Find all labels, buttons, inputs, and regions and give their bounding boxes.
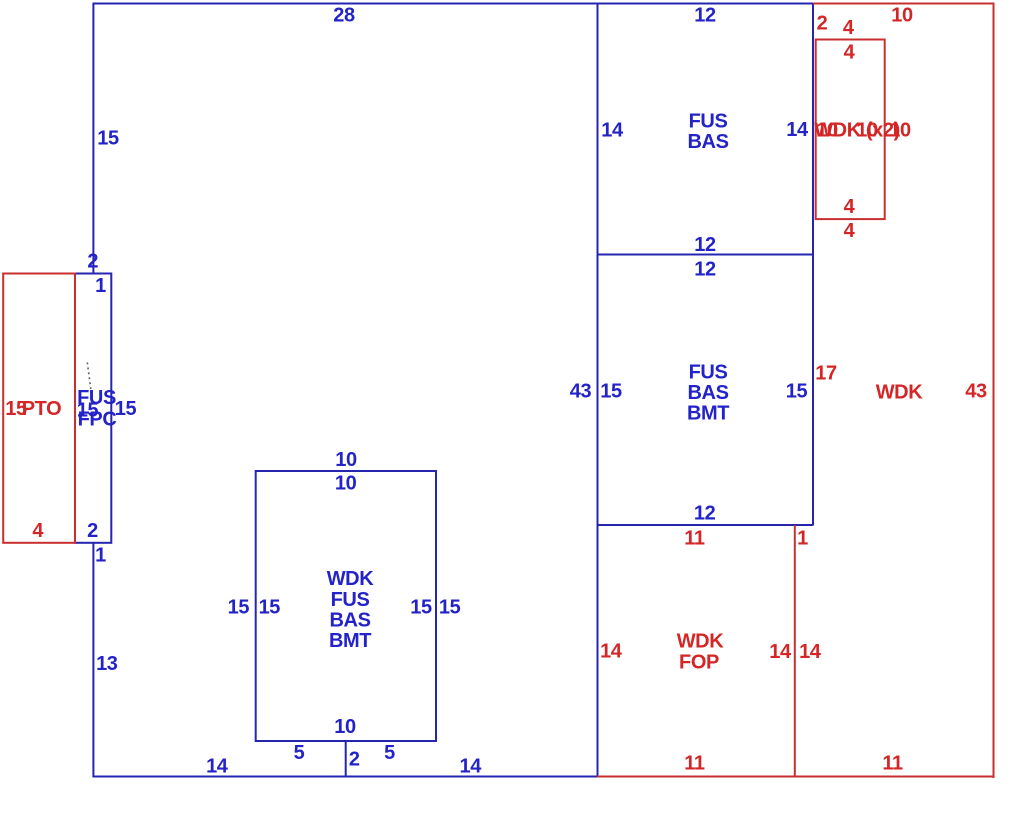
node: WDK FUS BAS BMT rectangle bbox=[256, 471, 436, 741]
svg-text:14: 14 bbox=[786, 119, 809, 141]
svg-text:BMT: BMT bbox=[329, 630, 371, 652]
node: FUS FPC rectangle bbox=[75, 274, 111, 543]
svg-text:10: 10 bbox=[856, 119, 878, 141]
svg-text:15: 15 bbox=[410, 596, 432, 618]
svg-text:10: 10 bbox=[335, 449, 357, 471]
node: PTO rectangle bbox=[3, 274, 75, 543]
svg-text:15: 15 bbox=[439, 596, 461, 618]
svg-text:15: 15 bbox=[97, 127, 119, 149]
svg-text:1: 1 bbox=[797, 527, 808, 549]
svg-text:13: 13 bbox=[96, 653, 118, 675]
svg-text:PTO: PTO bbox=[22, 398, 62, 420]
svg-text:FUS: FUS bbox=[331, 589, 370, 611]
svg-text:12: 12 bbox=[694, 234, 716, 256]
wire: blue center vertical wall (43 ft) bbox=[597, 3, 599, 778]
svg-text:17: 17 bbox=[815, 363, 837, 385]
svg-text:11: 11 bbox=[684, 527, 705, 549]
svg-text:BAS: BAS bbox=[687, 382, 728, 404]
svg-text:BAS: BAS bbox=[687, 131, 728, 153]
svg-text:15: 15 bbox=[600, 380, 622, 402]
svg-text:2: 2 bbox=[349, 748, 360, 770]
svg-text:5: 5 bbox=[384, 742, 395, 764]
svg-text:WDK: WDK bbox=[327, 568, 375, 590]
svg-text:15: 15 bbox=[228, 596, 250, 618]
svg-text:14: 14 bbox=[601, 119, 624, 141]
svg-text:1: 1 bbox=[95, 544, 106, 566]
svg-text:2: 2 bbox=[817, 12, 828, 34]
svg-text:1: 1 bbox=[95, 275, 106, 297]
svg-text:10: 10 bbox=[889, 119, 911, 141]
svg-text:FUS: FUS bbox=[689, 361, 728, 383]
svg-text:15: 15 bbox=[115, 398, 137, 420]
svg-text:10: 10 bbox=[334, 716, 356, 738]
svg-text:4: 4 bbox=[844, 220, 856, 242]
wire: red top wall (10 ft) of WDK bbox=[813, 3, 995, 5]
svg-text:12: 12 bbox=[694, 258, 716, 280]
wire: blue top wall (28 ft) of FUS BAS BMT bbox=[93, 3, 814, 5]
svg-text:43: 43 bbox=[570, 380, 592, 402]
svg-text:14: 14 bbox=[799, 641, 822, 663]
svg-text:12: 12 bbox=[694, 4, 716, 26]
svg-text:10: 10 bbox=[891, 4, 913, 26]
wire: blue divider between FUS BAS and FUS BAS BMT bbox=[597, 254, 814, 256]
wire: red right wall (43 ft) of WDK bbox=[993, 3, 995, 778]
svg-text:WDK: WDK bbox=[876, 381, 924, 403]
wire: red divider between WDK FOP and WDK bbox=[794, 525, 796, 778]
svg-text:11: 11 bbox=[684, 752, 705, 774]
svg-text:11: 11 bbox=[882, 752, 903, 774]
svg-text:10: 10 bbox=[335, 472, 357, 494]
svg-text:4: 4 bbox=[843, 17, 855, 39]
svg-text:FUS: FUS bbox=[689, 110, 728, 132]
svg-text:2: 2 bbox=[87, 250, 98, 272]
wire: red bottom wall (11+11 ft) bbox=[597, 776, 995, 778]
wire: dotted leader line bbox=[87, 363, 91, 390]
wire: blue connector tick (2 ft) bbox=[345, 740, 347, 777]
svg-text:14: 14 bbox=[206, 755, 229, 777]
svg-text:BAS: BAS bbox=[329, 610, 370, 632]
wire: blue left wall upper segment (15 ft) bbox=[92, 3, 94, 274]
svg-text:4: 4 bbox=[844, 196, 856, 218]
svg-text:4: 4 bbox=[32, 520, 44, 542]
svg-text:28: 28 bbox=[333, 4, 355, 26]
svg-text:12: 12 bbox=[694, 502, 716, 524]
svg-text:15: 15 bbox=[77, 399, 99, 421]
svg-text:10: 10 bbox=[816, 119, 838, 141]
svg-text:4: 4 bbox=[844, 41, 856, 63]
svg-text:BMT: BMT bbox=[687, 402, 729, 424]
wire: blue left wall lower segment (13 ft) bbox=[92, 543, 94, 778]
svg-text:FOP: FOP bbox=[679, 652, 719, 674]
wire: blue bottom wall (28 ft) bbox=[93, 776, 599, 778]
svg-text:14: 14 bbox=[769, 641, 792, 663]
wire: blue right vertical wall (x=813) bbox=[812, 3, 814, 525]
svg-text:15: 15 bbox=[259, 596, 281, 618]
svg-text:5: 5 bbox=[294, 742, 305, 764]
svg-text:15: 15 bbox=[786, 380, 808, 402]
svg-text:14: 14 bbox=[459, 755, 482, 777]
node: WDK (x2) rectangle bbox=[816, 40, 885, 220]
svg-text:WDK: WDK bbox=[677, 631, 725, 653]
svg-text:14: 14 bbox=[600, 641, 623, 663]
svg-text:2: 2 bbox=[87, 520, 98, 542]
svg-text:43: 43 bbox=[965, 381, 987, 403]
wire: blue divider between FUS BAS BMT and WDK FOP bbox=[597, 524, 814, 526]
